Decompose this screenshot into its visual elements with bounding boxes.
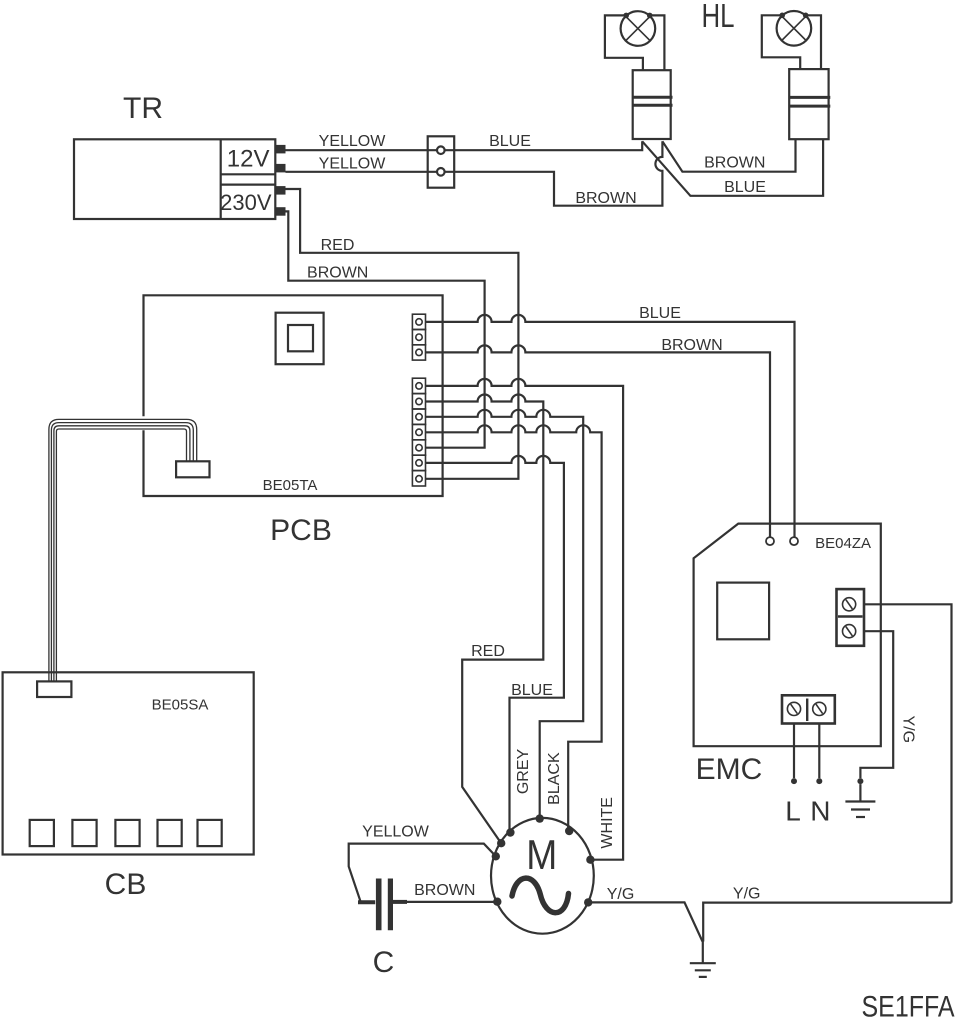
svg-text:BROWN: BROWN (575, 190, 636, 207)
svg-text:N: N (810, 796, 830, 827)
svg-text:BLACK: BLACK (546, 752, 563, 805)
svg-text:YELLOW: YELLOW (362, 824, 430, 841)
svg-text:SE1FFA: SE1FFA (862, 991, 955, 1018)
svg-text:Y/G: Y/G (607, 886, 635, 903)
svg-text:L: L (785, 796, 801, 827)
svg-text:BLUE: BLUE (639, 305, 681, 322)
svg-text:TR: TR (123, 92, 163, 125)
svg-text:WHITE: WHITE (599, 797, 616, 849)
svg-text:Y/G: Y/G (900, 716, 917, 744)
svg-text:RED: RED (321, 237, 355, 254)
svg-text:YELLOW: YELLOW (319, 156, 387, 173)
svg-text:YELLOW: YELLOW (319, 133, 387, 150)
svg-text:BROWN: BROWN (414, 882, 475, 899)
svg-text:BLUE: BLUE (511, 682, 553, 699)
svg-text:PCB: PCB (270, 514, 332, 547)
svg-text:BROWN: BROWN (661, 337, 722, 354)
svg-text:BE04ZA: BE04ZA (815, 535, 871, 552)
svg-text:BE05SA: BE05SA (152, 697, 209, 714)
svg-text:C: C (373, 946, 395, 979)
svg-text:BE05TA: BE05TA (263, 477, 318, 494)
svg-text:CB: CB (105, 868, 147, 901)
svg-text:EMC: EMC (696, 753, 763, 786)
svg-text:GREY: GREY (515, 749, 532, 795)
svg-text:230V: 230V (220, 190, 272, 215)
svg-text:BLUE: BLUE (489, 133, 531, 150)
svg-text:RED: RED (471, 643, 505, 660)
svg-text:BROWN: BROWN (704, 155, 765, 172)
svg-text:Y/G: Y/G (733, 886, 761, 903)
svg-text:12V: 12V (227, 145, 270, 172)
svg-text:M: M (526, 831, 557, 878)
svg-text:BROWN: BROWN (307, 265, 368, 282)
svg-text:BLUE: BLUE (724, 179, 766, 196)
svg-text:HL: HL (702, 0, 735, 34)
